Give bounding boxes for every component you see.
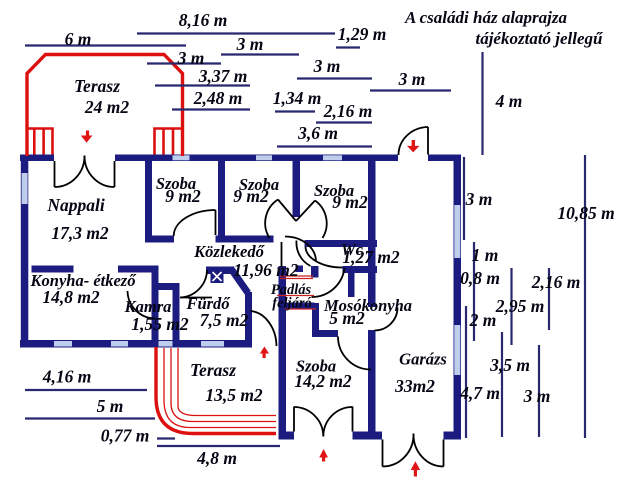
svg-text:Terasz: Terasz bbox=[190, 360, 236, 380]
wall padlas bottom bbox=[279, 303, 315, 310]
svg-text:9 m2: 9 m2 bbox=[165, 186, 201, 206]
wall furdo top bbox=[206, 267, 233, 275]
wall szoba2 bottom bbox=[224, 236, 274, 243]
window right 2 bbox=[454, 325, 460, 375]
dim line 2,95 m vertical bbox=[510, 268, 512, 345]
svg-text:6 m: 6 m bbox=[65, 29, 92, 49]
dim line 2,16 m bbox=[316, 121, 372, 123]
door moth szoba2 szoba3 bbox=[265, 200, 327, 239]
steps left bbox=[27, 129, 53, 155]
svg-text:3 m: 3 m bbox=[465, 189, 493, 209]
svg-text:feljáró: feljáró bbox=[272, 296, 311, 312]
svg-text:14,2 m2: 14,2 m2 bbox=[294, 371, 352, 391]
svg-text:1,55 m2: 1,55 m2 bbox=[131, 314, 189, 334]
dim line 3 m right bbox=[370, 89, 451, 91]
wall szoba2 szoba3 bbox=[293, 161, 301, 217]
svg-text:8,16 m: 8,16 m bbox=[179, 10, 228, 30]
svg-text:3,6 m: 3,6 m bbox=[297, 123, 338, 143]
window left bbox=[22, 173, 28, 204]
dim line 3,6 m bbox=[277, 145, 372, 147]
svg-text:14,8 m2: 14,8 m2 bbox=[42, 287, 100, 307]
wall bottom lower segment b bbox=[353, 432, 383, 440]
dimension lines horizontal bbox=[25, 34, 451, 447]
dim line 4,16 m bbox=[25, 389, 147, 391]
svg-text:1,27 m2: 1,27 m2 bbox=[342, 247, 400, 267]
wall konyha divider b bbox=[118, 266, 159, 273]
svg-text:7,5 m2: 7,5 m2 bbox=[200, 310, 249, 330]
wall kamra left stub bbox=[152, 266, 159, 348]
svg-text:9 m2: 9 m2 bbox=[233, 186, 269, 206]
svg-text:2,48 m: 2,48 m bbox=[193, 88, 243, 108]
steps right bbox=[155, 129, 183, 155]
svg-text:Terasz: Terasz bbox=[74, 76, 120, 96]
terrace bottom red thin lines bbox=[164, 348, 276, 428]
dim line 3 m left small bbox=[147, 62, 221, 64]
dim line 3 m upper right vertical bbox=[463, 157, 465, 240]
window bottom 3 bbox=[152, 341, 176, 347]
svg-text:10,85 m: 10,85 m bbox=[557, 203, 614, 223]
svg-text:A családi ház alaprajza: A családi ház alaprajza bbox=[404, 8, 568, 27]
svg-text:3,5 m: 3,5 m bbox=[489, 355, 530, 375]
wall bottom bbox=[20, 340, 251, 348]
svg-text:Garázs: Garázs bbox=[399, 350, 447, 369]
svg-text:2 m: 2 m bbox=[469, 310, 497, 330]
line padlas right thin bbox=[311, 266, 319, 278]
wall bottom lower segment a bbox=[279, 432, 295, 440]
svg-text:3 m: 3 m bbox=[398, 69, 426, 89]
svg-text:1,29 m: 1,29 m bbox=[338, 24, 387, 44]
svg-text:4,16 m: 4,16 m bbox=[42, 367, 92, 387]
svg-text:3 m: 3 m bbox=[236, 34, 264, 54]
svg-text:Közlekedő: Közlekedő bbox=[193, 242, 265, 261]
wall moso szoba divider bbox=[313, 330, 339, 337]
wall wc bottom main bbox=[343, 266, 378, 273]
wall furdo right bbox=[245, 292, 252, 348]
door szoba14 double bbox=[294, 407, 353, 437]
window bottom 1 bbox=[54, 341, 72, 347]
wall szoba1 szoba2 bbox=[218, 161, 225, 242]
wall szoba1 bottom a bbox=[145, 236, 174, 243]
wall top segment c bbox=[428, 155, 461, 162]
wall top segment b bbox=[115, 155, 398, 162]
wall szoba1 bottom b bbox=[216, 236, 225, 243]
dim line 1 m + 0,8 m + 2 m vertical bbox=[473, 242, 475, 341]
svg-text:3 m: 3 m bbox=[313, 56, 341, 76]
svg-text:0,77 m: 0,77 m bbox=[101, 426, 150, 446]
dim line 8,16 m bbox=[137, 32, 335, 34]
svg-text:5 m2: 5 m2 bbox=[329, 308, 365, 328]
terrace top red outline bbox=[27, 55, 183, 157]
door nappali french bbox=[55, 156, 115, 188]
wall szoba3 wc top bbox=[305, 240, 378, 247]
wall garage left upper bbox=[368, 161, 376, 307]
dim line 3,5 m vertical bbox=[501, 332, 503, 437]
door kozlekedo corridor bbox=[282, 237, 317, 268]
wall garage left lower bbox=[368, 330, 376, 440]
window top 2 bbox=[256, 155, 272, 160]
svg-text:2,16 m: 2,16 m bbox=[323, 101, 373, 121]
svg-text:1 m: 1 m bbox=[472, 245, 499, 265]
window right 1 bbox=[454, 205, 460, 258]
wall moso stub bbox=[348, 270, 355, 297]
svg-text:3,37 m: 3,37 m bbox=[198, 66, 248, 86]
dim line 4 m vertical bbox=[481, 52, 483, 155]
wall wc bottom stub bbox=[296, 266, 304, 273]
dim line 5 m bbox=[25, 417, 155, 419]
dim line 4,7 m vertical bbox=[465, 306, 467, 438]
window furdo x-box bbox=[211, 270, 224, 283]
door wc bbox=[306, 247, 343, 268]
arrow garage bottom up bbox=[411, 461, 421, 476]
svg-text:3 m: 3 m bbox=[523, 386, 551, 406]
dim line 6 m bbox=[25, 44, 186, 46]
window top 3 bbox=[323, 155, 342, 160]
arrow szoba14 up bbox=[319, 449, 328, 462]
wall kamra right bbox=[173, 283, 180, 348]
wall left bbox=[21, 155, 29, 348]
svg-text:5 m: 5 m bbox=[97, 396, 124, 416]
door padlas arc bbox=[312, 268, 345, 297]
door kamra bbox=[128, 291, 156, 319]
arrow terasz exit up bbox=[260, 347, 269, 359]
wall konyha divider a bbox=[32, 266, 74, 273]
svg-text:2,95 m: 2,95 m bbox=[495, 296, 545, 316]
dim line 3 m top bbox=[221, 53, 299, 55]
svg-text:2,16 m: 2,16 m bbox=[531, 272, 581, 292]
dim line 0,77 m bbox=[157, 437, 175, 439]
svg-text:11,96 m2: 11,96 m2 bbox=[233, 260, 298, 280]
terrace bottom red thick bbox=[156, 347, 276, 434]
dim line 1,29 m bbox=[336, 46, 360, 48]
wall nappali szoba1 bbox=[145, 161, 152, 242]
room texts bbox=[30, 76, 447, 405]
door szoba3 bbox=[296, 241, 310, 267]
dim line 3 m mid bbox=[297, 77, 372, 79]
window bottom 4 bbox=[201, 341, 224, 347]
svg-text:13,5 m2: 13,5 m2 bbox=[205, 385, 263, 405]
svg-text:3 m: 3 m bbox=[177, 48, 205, 68]
svg-text:tájékoztató jellegű: tájékoztató jellegű bbox=[475, 29, 603, 48]
svg-text:4,7 m: 4,7 m bbox=[459, 383, 500, 403]
wall bottom lower segment c bbox=[444, 432, 462, 440]
svg-text:0,8 m: 0,8 m bbox=[460, 268, 500, 288]
door furdo bbox=[180, 270, 212, 298]
door moso garage bbox=[375, 308, 398, 331]
dim line 3,37 m bbox=[155, 84, 250, 86]
window top 1 bbox=[173, 155, 190, 160]
dim line 1,34 m bbox=[275, 110, 315, 112]
door szoba1 bbox=[174, 210, 216, 236]
dim line 10,85 m vertical bbox=[584, 155, 586, 438]
wall right garage bbox=[454, 155, 462, 440]
dim line 2,48 m bbox=[172, 108, 250, 110]
wall padlas left bbox=[279, 266, 287, 440]
svg-text:33m2: 33m2 bbox=[394, 376, 435, 396]
wall top segment a bbox=[20, 155, 54, 162]
door terasz exit bbox=[251, 311, 277, 346]
wall kamra step bbox=[152, 283, 180, 290]
window bottom 2 bbox=[111, 341, 128, 347]
wall furdo chamfer bbox=[231, 268, 249, 293]
wall padlas right lower bbox=[312, 303, 319, 337]
door garage top bbox=[399, 127, 429, 155]
arrow garage top down bbox=[407, 140, 419, 152]
dim line 4,8 m bbox=[157, 445, 280, 447]
svg-text:24 m2: 24 m2 bbox=[84, 97, 129, 117]
svg-text:4 m: 4 m bbox=[495, 91, 523, 111]
arrow terrace down bbox=[81, 131, 93, 143]
dim line 3 m lower right vertical bbox=[538, 345, 540, 437]
padlas red lines bbox=[277, 276, 316, 309]
svg-text:17,3 m2: 17,3 m2 bbox=[51, 223, 109, 243]
svg-text:4,8 m: 4,8 m bbox=[196, 448, 237, 468]
door moso szoba14 bbox=[338, 337, 371, 370]
svg-text:9 m2: 9 m2 bbox=[332, 192, 368, 212]
dim line 2,16 m right vertical bbox=[548, 268, 550, 330]
dimension lines vertical bbox=[464, 52, 585, 438]
door garage double bbox=[383, 434, 444, 467]
svg-text:Nappali: Nappali bbox=[46, 195, 105, 215]
svg-text:1,34 m: 1,34 m bbox=[273, 88, 322, 108]
